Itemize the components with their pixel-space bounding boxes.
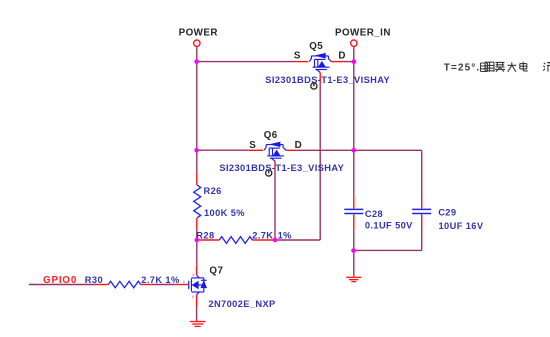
pin C28 top stub [353, 196, 355, 209]
wire C28 bottom down to bottom rail [353, 229, 355, 250]
svg-text:C28: C28 [365, 209, 383, 219]
ground under Q7 [190, 321, 206, 327]
wire POWER_IN rail down to Q6 drain line [353, 62, 355, 151]
junction dot POWER_IN/Q6 drain line [352, 148, 357, 153]
transistor Q5 pin G label (rotated) [311, 83, 317, 89]
pin Q6 gate stub [274, 161, 276, 169]
svg-text:POWER_IN: POWER_IN [335, 28, 391, 39]
wire C28 branch down [353, 150, 355, 195]
annotation CJK dian (electric) [520, 62, 528, 71]
svg-text:Q7: Q7 [209, 265, 223, 276]
wire left rail down POWER to R26 [196, 62, 198, 173]
svg-text:D: D [295, 140, 303, 151]
svg-text:0.1UF 50V: 0.1UF 50V [365, 221, 413, 231]
junction dot R26/R28/Q7 drain [195, 238, 200, 243]
pin Q7 drain stub [196, 266, 198, 275]
junction dot POWER_IN/Q5 drain [352, 59, 357, 64]
annotation CJK da (large) [508, 62, 517, 72]
pin C29 bottom stub [421, 214, 423, 225]
junction dot R28/Q6 gate [273, 238, 278, 243]
node POWER port circle [194, 40, 200, 46]
pin Q7 gate stub [174, 284, 188, 286]
pin R28 right stub [252, 239, 274, 241]
svg-text:C29: C29 [438, 207, 456, 217]
wire C29 branch down from corner [421, 150, 423, 198]
capacitor C28 plates [344, 209, 363, 213]
pin Q5 drain stub [331, 61, 343, 63]
wire GPIO0 net to R30 [29, 284, 96, 286]
annotation CJK glyph cluster (overlapped) [481, 62, 506, 72]
wire Q6 drain line to C29 branch corner [297, 149, 422, 151]
pin R26 top stub [196, 173, 198, 186]
svg-text:D: D [338, 51, 346, 62]
svg-text:2N7002E_NXP: 2N7002E_NXP [208, 299, 275, 309]
resistor R28 zigzag [219, 237, 252, 244]
wire top rail POWER to Q5 source [197, 61, 297, 63]
svg-text:S: S [294, 51, 301, 62]
resistor R26 zigzag [194, 185, 201, 218]
pin R26 bottom stub [196, 218, 198, 230]
node POWER_IN port circle [351, 40, 357, 46]
svg-text:S: S [249, 140, 256, 151]
transistor Q6 SI2301 body [264, 142, 286, 161]
svg-text:POWER: POWER [179, 27, 218, 38]
pin Q5 gate stub [319, 72, 321, 83]
wire R28 right junction to gate riser corner [275, 239, 320, 241]
pin Q5 source stub [297, 61, 309, 63]
pin Q6 drain stub [286, 149, 297, 151]
junction dot bottom rail/ground [351, 248, 356, 253]
svg-text:SI2301BDS-T1-E3_VISHAY: SI2301BDS-T1-E3_VISHAY [265, 75, 390, 85]
svg-text:3: 3 [192, 272, 195, 277]
svg-text:2.7K 1%: 2.7K 1% [141, 275, 180, 285]
wire R26 bottom to R28 junction [196, 230, 198, 266]
svg-text:1: 1 [183, 279, 186, 284]
pin R28 left stub [198, 239, 220, 241]
svg-text:100K 5%: 100K 5% [204, 208, 245, 218]
pin Q6 source stub [248, 149, 263, 151]
wire POWER port to top rail [196, 47, 198, 62]
pin C29 top stub [421, 199, 423, 209]
wire bottom rail to ground stub [353, 250, 355, 275]
wire Q5 drain to POWER_IN rail [344, 61, 354, 63]
wire Q6 gate down to R28 junction [274, 169, 276, 240]
svg-text:T=25°.: T=25°. [444, 62, 480, 73]
junction dot POWER/Q5 source [194, 59, 199, 64]
wire C29 bottom to bottom rail [421, 225, 423, 250]
wire gate riser up to Q5 gate [319, 84, 321, 240]
wire POWER_IN port down [353, 47, 355, 62]
transistor Q5 SI2301 body [309, 53, 331, 72]
svg-text:1%: 1% [278, 230, 293, 240]
svg-text:R28: R28 [196, 230, 214, 240]
ground under C28 [346, 276, 361, 282]
wire R30 to Q7 gate [152, 284, 175, 286]
svg-text:2.7K: 2.7K [252, 230, 273, 240]
pin C28 bottom stub [353, 214, 355, 229]
svg-text:GPIO0: GPIO0 [43, 275, 77, 286]
pin R30 right stub [141, 284, 152, 286]
capacitor C29 plates [412, 209, 431, 213]
wire Q7 source down to ground [196, 307, 198, 321]
annotation CJK liu (flow, clipped) [543, 63, 550, 72]
svg-text:R30: R30 [85, 275, 103, 285]
svg-text:2: 2 [192, 294, 195, 299]
transistor Q7 2N7002 body [189, 275, 207, 294]
pin R30 left stub [96, 284, 108, 286]
svg-text:R26: R26 [204, 186, 222, 196]
svg-text:10UF 16V: 10UF 16V [439, 221, 484, 231]
wire bottom rail C28 to C29 [354, 249, 422, 251]
transistor Q6 pin G label (rotated) [266, 170, 272, 176]
svg-text:Q5: Q5 [309, 41, 323, 52]
wire left rail junction to Q6 source [197, 149, 249, 151]
resistor R30 zigzag [108, 281, 140, 287]
svg-text:Q6: Q6 [264, 130, 278, 141]
svg-text:SI2301BDS-T1-E3_VISHAY: SI2301BDS-T1-E3_VISHAY [219, 163, 344, 173]
pin Q7 source stub [196, 295, 198, 307]
junction dot rail/Q6 source [194, 148, 199, 153]
